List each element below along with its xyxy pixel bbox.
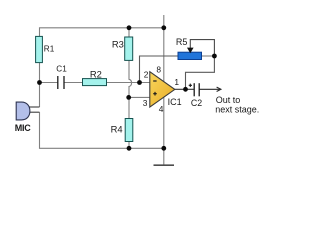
svg-text:R5: R5 xyxy=(176,37,188,47)
wire: feedback down from R5 junction to output node xyxy=(186,56,215,89)
potentiometer R5 xyxy=(178,52,202,59)
wire: lower left rail and bottom ground rail xyxy=(40,112,164,148)
resistor R3 xyxy=(125,37,133,60)
wire: R5 wiper loop xyxy=(190,40,214,56)
capacitor C1 xyxy=(58,76,64,89)
svg-text:R3: R3 xyxy=(112,38,124,49)
microphone MIC xyxy=(16,102,30,120)
wire: C2 to output arrow xyxy=(199,88,220,90)
op-amp minus sign xyxy=(153,80,156,82)
wire: R3/R4 column (R3 top stub, jog over signal wire, down to rail) xyxy=(129,28,132,149)
node: R5 right junction xyxy=(212,54,217,59)
output arrowhead xyxy=(217,87,221,91)
wire: pin 3 from column to op-amp xyxy=(129,96,150,98)
wire: C1 to R2 xyxy=(64,82,83,84)
wire: R2 to op-amp pin 2 xyxy=(107,82,150,84)
svg-text:3: 3 xyxy=(143,98,148,108)
op-amp plus sign xyxy=(153,92,157,96)
node: pin2 / feedback junction xyxy=(137,80,142,85)
potentiometer R5 wiper arrow xyxy=(187,48,194,54)
node: output / feedback junction xyxy=(183,87,188,92)
wire: mic lower terminal stub xyxy=(29,111,40,113)
svg-text:C1: C1 xyxy=(56,65,67,74)
svg-text:1: 1 xyxy=(174,77,179,87)
svg-text:MIC: MIC xyxy=(15,123,31,133)
wire: ground stem xyxy=(163,148,165,165)
svg-text:next stage.: next stage. xyxy=(215,105,259,115)
resistor R2 xyxy=(83,79,107,86)
node: left rail / C1 branch junction xyxy=(37,80,42,85)
svg-text:8: 8 xyxy=(156,64,161,74)
capacitor C2 plus sign xyxy=(189,84,192,87)
svg-text:R1: R1 xyxy=(44,44,55,53)
capacitor C2 xyxy=(194,83,199,96)
wire: V+ stub / pin8-pin4 vertical (under op-amp) xyxy=(163,15,165,148)
node: bottom rail / ground junction xyxy=(161,146,166,151)
node: bottom rail / R4 junction xyxy=(127,146,132,151)
svg-text:R2: R2 xyxy=(90,68,102,79)
wire: middle signal line (left rail to C1) xyxy=(40,82,58,84)
svg-text:C2: C2 xyxy=(191,98,202,108)
wire: feedback from pin2 node up and right to R5 left xyxy=(140,56,179,83)
node: top rail / R3 junction xyxy=(127,25,132,30)
wire: R5 right terminal to junction xyxy=(202,55,215,57)
resistor R4 xyxy=(125,119,133,142)
ground xyxy=(154,164,175,166)
svg-text:2: 2 xyxy=(144,70,149,80)
wire: op-amp output to C2 xyxy=(175,88,195,90)
svg-text:4: 4 xyxy=(159,104,164,114)
resistor R1 xyxy=(36,36,43,62)
svg-text:R4: R4 xyxy=(111,123,123,134)
node: pin3 / R3-R4 column junction xyxy=(126,95,131,100)
svg-text:IC1: IC1 xyxy=(168,97,182,107)
wire: top supply rail and upper left rail xyxy=(40,28,164,107)
wire: mic upper terminal stub xyxy=(29,106,40,108)
node: top rail / supply column junction xyxy=(161,25,166,30)
op-amp IC1 xyxy=(150,72,175,107)
